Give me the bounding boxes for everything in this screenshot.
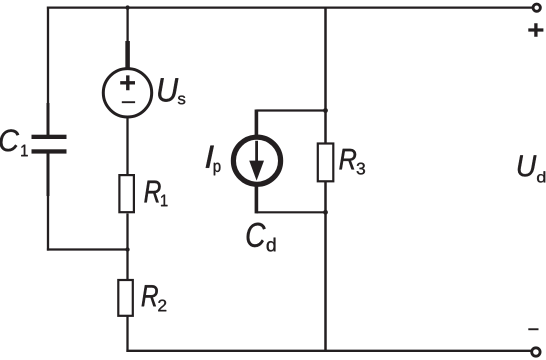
wire bottom-left connector: [47, 248, 129, 250]
terminal bottom right: [532, 348, 540, 356]
label C1: [0, 129, 19, 151]
label Ip: [206, 146, 214, 168]
terminal minus sign: [528, 328, 538, 330]
wire middle branch top: [126, 7, 128, 43]
label Cd: [247, 223, 266, 247]
wire Ip loop bottom: [256, 211, 326, 213]
current source arrow shaft: [255, 141, 258, 164]
label R3: [339, 149, 356, 170]
wire right-middle branch lower: [324, 182, 327, 352]
node junction dot top middle: [125, 5, 129, 9]
voltage source plus sign: [120, 75, 135, 90]
label Ud: [518, 155, 536, 176]
wire right-middle branch upper: [324, 7, 327, 144]
label R2: [142, 285, 158, 306]
wire Ip bottom lead: [255, 185, 259, 214]
terminal top right: [533, 4, 540, 11]
wire source top lead: [125, 41, 130, 68]
node junction dot loop top: [323, 108, 328, 113]
wire below R2: [126, 317, 128, 352]
node junction dot middle-left: [125, 247, 129, 251]
wire Ip top lead: [255, 110, 259, 138]
label Us: [158, 78, 178, 101]
wire left vertical lower: [47, 154, 49, 251]
label R1: [144, 181, 160, 203]
wire C1 bottom lead: [47, 153, 50, 196]
resistor R2: [118, 280, 133, 316]
resistor R1: [119, 175, 133, 212]
voltage source minus sign: [122, 101, 135, 103]
wire top horizontal: [47, 6, 533, 8]
capacitor C1: [32, 135, 67, 139]
voltage source Us circle: [103, 69, 151, 117]
current source Ip circle: [233, 137, 280, 184]
node junction dot loop bottom: [323, 210, 328, 215]
wire left vertical upper: [47, 7, 49, 137]
wire C1 top lead: [47, 103, 50, 136]
terminal plus sign: [528, 23, 543, 37]
current source arrow head: [249, 161, 264, 181]
wire between R1 and R2: [126, 214, 128, 281]
wire below source: [126, 118, 128, 176]
wire Ip loop top: [256, 109, 326, 111]
wire bottom horizontal: [126, 350, 533, 352]
resistor R3: [318, 144, 334, 182]
